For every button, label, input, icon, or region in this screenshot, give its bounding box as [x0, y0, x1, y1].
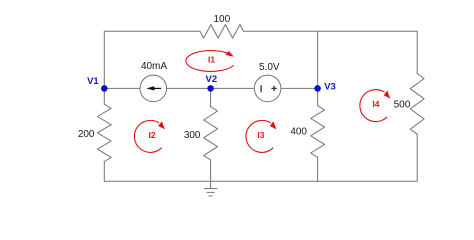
- svg-text:V1: V1: [87, 76, 99, 87]
- svg-text:500: 500: [394, 100, 411, 111]
- svg-text:40mA: 40mA: [141, 61, 167, 72]
- svg-text:300: 300: [184, 130, 201, 141]
- svg-text:V3: V3: [324, 81, 336, 92]
- svg-text:5.0V: 5.0V: [259, 62, 280, 73]
- svg-text:400: 400: [290, 126, 307, 137]
- svg-text:I1: I1: [208, 54, 215, 64]
- svg-text:I3: I3: [257, 130, 264, 140]
- svg-text:100: 100: [213, 14, 230, 25]
- svg-text:I2: I2: [148, 130, 155, 140]
- svg-text:V2: V2: [205, 74, 217, 85]
- svg-text:200: 200: [78, 129, 95, 140]
- svg-text:I4: I4: [372, 99, 379, 109]
